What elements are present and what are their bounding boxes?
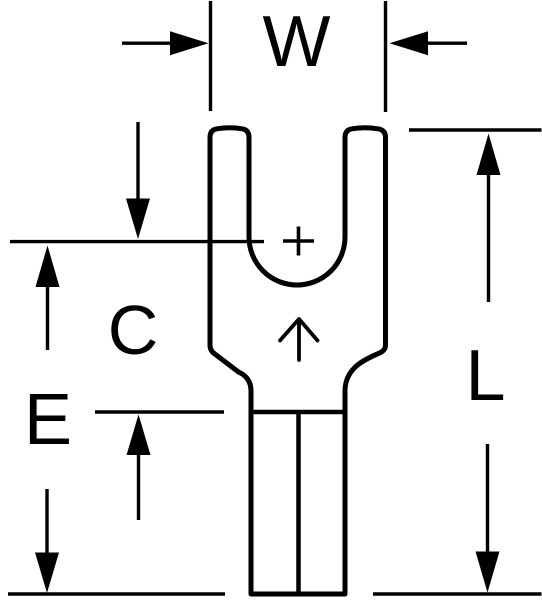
W right arrow	[424, 42, 467, 45]
plus mark (stud center)	[283, 227, 314, 256]
L lower arrow (down)	[486, 444, 489, 555]
L top reference line	[409, 128, 542, 131]
E lower arrow (down)	[45, 489, 48, 557]
svg-text:C: C	[108, 291, 159, 369]
fork-center reference line	[10, 240, 264, 243]
W left extension line	[209, 1, 212, 111]
stem seam line	[296, 412, 301, 594]
svg-text:L: L	[465, 336, 505, 416]
crimp line	[251, 410, 345, 415]
fork terminal outline	[210, 128, 386, 594]
bottom-left reference line	[8, 592, 225, 595]
insert-direction arrow symbol	[280, 319, 318, 360]
svg-text:E: E	[24, 380, 72, 460]
L upper arrow (up)	[477, 134, 501, 176]
E upper arrow (up)	[36, 246, 60, 288]
C dimension line at crimp level	[95, 410, 224, 413]
C upper arrow (down)	[136, 122, 139, 202]
C lower arrow (up)	[127, 415, 151, 456]
svg-text:W: W	[263, 2, 331, 82]
W right extension line	[384, 1, 387, 112]
W left arrow	[122, 42, 172, 45]
bottom-right reference line	[373, 592, 542, 595]
